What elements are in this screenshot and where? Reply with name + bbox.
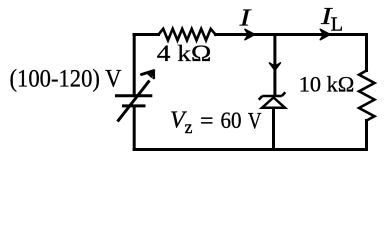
source: variable supply (100-120) V : battery plates <box>115 96 152 106</box>
resistor 4 kOhm (series) <box>159 29 216 41</box>
wire: top segment resistor to mid junction <box>216 33 275 36</box>
wire: left vertical (top, from corner to source) <box>133 35 136 95</box>
svg-text:=: = <box>200 109 214 135</box>
svg-text:60: 60 <box>221 108 242 133</box>
svg-text:V: V <box>248 108 262 134</box>
wire: middle branch bottom (zener anode to bottom wire) <box>272 108 275 150</box>
wire: bottom <box>134 148 366 151</box>
wire: right vertical top <box>365 35 368 71</box>
wire: top-left segment <box>134 33 159 36</box>
zener diode D1: triangle (anode, pointing up) <box>262 98 285 108</box>
source: variable supply diagonal arrow <box>118 71 154 122</box>
current arrow into zener (middle branch) <box>269 63 280 70</box>
zener diode D1: cathode bar with hooks <box>259 92 286 100</box>
wire: left vertical (bottom, from source to bottom wire) <box>133 107 136 149</box>
svg-text:(100-120) V: (100-120) V <box>10 65 122 92</box>
current arrow I (on top wire) <box>245 29 255 39</box>
wire: top segment mid junction to right corner <box>275 33 367 36</box>
svg-text:L: L <box>331 14 343 36</box>
resistor 10 kOhm (load) <box>359 71 375 121</box>
svg-text:I: I <box>238 5 251 32</box>
svg-text:z: z <box>185 117 193 137</box>
wire: middle branch top (junction to zener cathode) <box>273 35 276 96</box>
wire: right vertical bottom <box>365 121 368 150</box>
svg-text:10 kΩ: 10 kΩ <box>299 71 355 96</box>
svg-text:4 kΩ: 4 kΩ <box>157 41 212 66</box>
current arrow IL (on top wire) <box>320 29 330 39</box>
